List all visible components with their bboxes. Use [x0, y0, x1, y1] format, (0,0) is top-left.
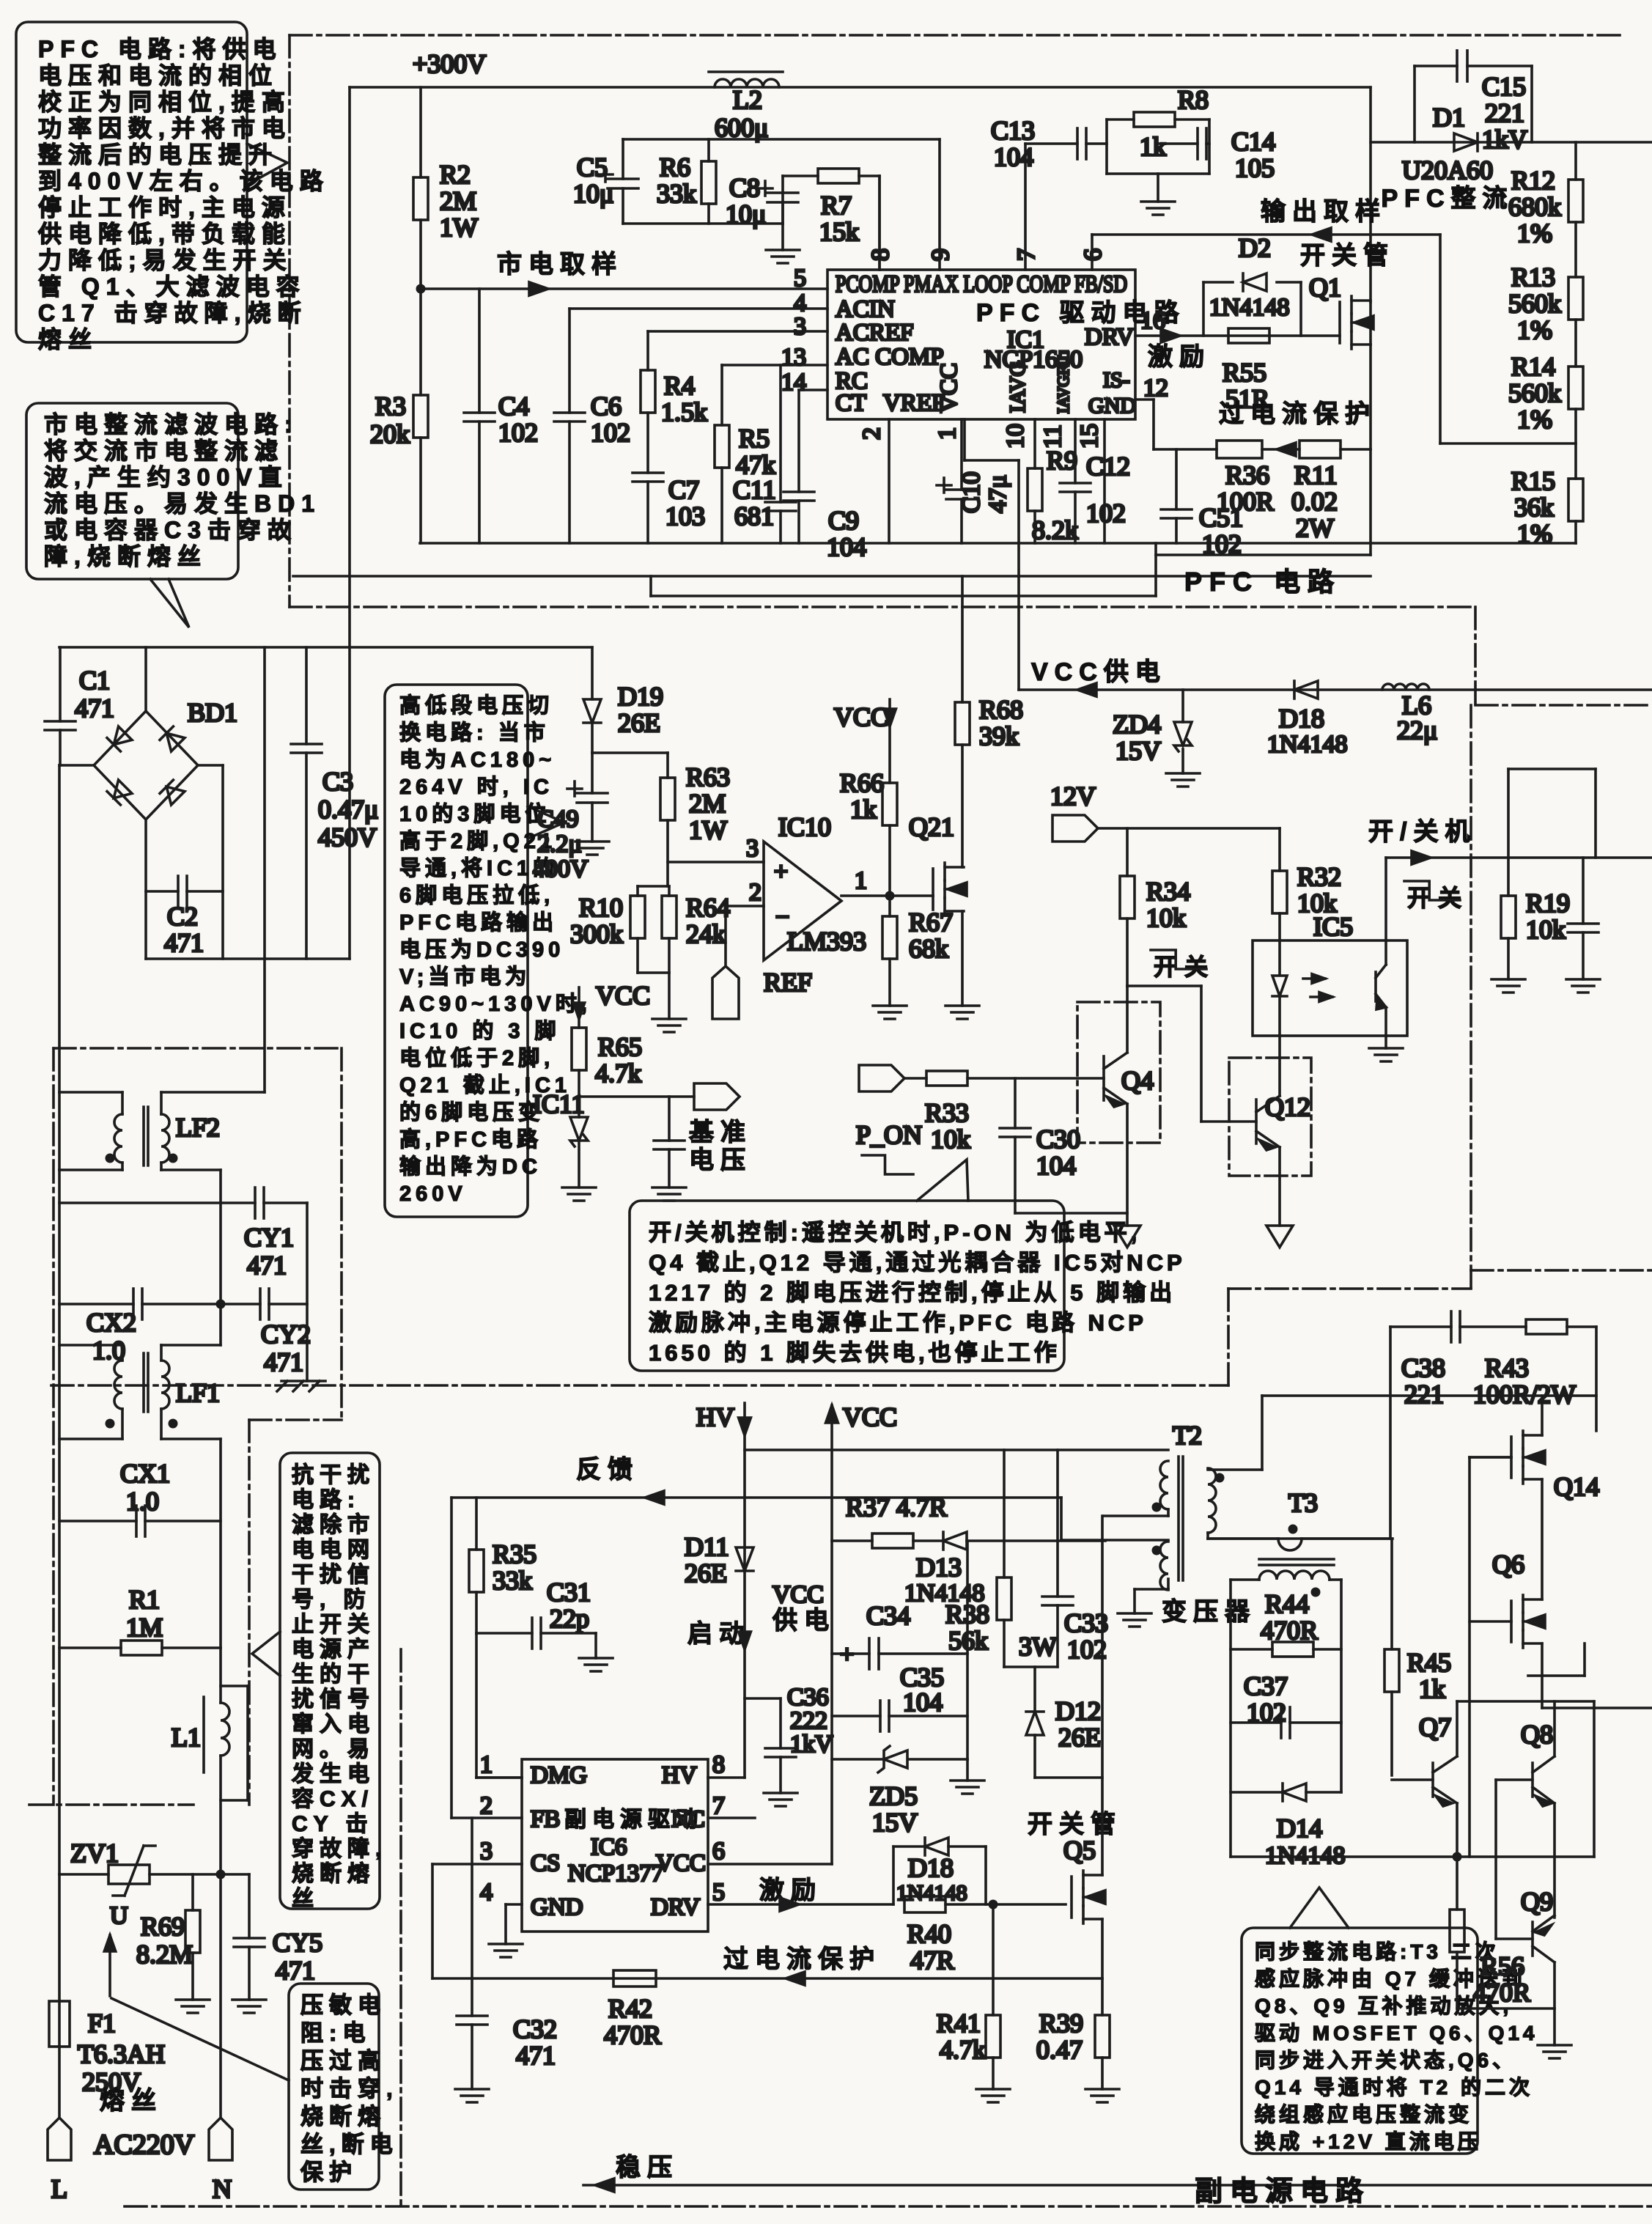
svg-text:1N4148: 1N4148 [1209, 294, 1290, 321]
svg-text:窜入电: 窜入电 [292, 1712, 375, 1737]
svg-text:Q1: Q1 [1309, 273, 1341, 302]
svg-text:D14: D14 [1277, 1814, 1322, 1843]
svg-text:1kV: 1kV [1482, 125, 1527, 154]
svg-text:10μ: 10μ [573, 179, 613, 208]
svg-text:R55: R55 [1223, 358, 1266, 387]
resistor R55 [1228, 328, 1269, 343]
svg-text:R41: R41 [937, 2008, 981, 2038]
svg-text:R12: R12 [1511, 166, 1555, 195]
svg-text:R43: R43 [1485, 1353, 1529, 1382]
wire Q9 base [1496, 1937, 1533, 1940]
svg-text:V;当市电为: V;当市电为 [399, 964, 531, 989]
wire PFC left vertical [348, 87, 351, 647]
svg-text:网。易: 网。易 [292, 1737, 375, 1761]
diode D1 line [1371, 141, 1652, 144]
wire PFC ground bus [420, 542, 1576, 545]
ground Q12 emitter [1266, 1226, 1293, 1248]
svg-text:26E: 26E [618, 708, 660, 737]
svg-text:10k: 10k [931, 1124, 970, 1154]
wire Q8 emitter to Q9 collector [1553, 1803, 1556, 1918]
svg-text:R4: R4 [664, 371, 695, 400]
svg-text:R34: R34 [1146, 877, 1190, 906]
ground under ZD4 [1181, 749, 1184, 773]
svg-text:12: 12 [1143, 375, 1168, 402]
wire pin7 vertical [1024, 144, 1027, 270]
svg-text:+300V: +300V [413, 49, 486, 78]
svg-text:0.47μ: 0.47μ [318, 795, 378, 824]
svg-text:丝: 丝 [292, 1887, 320, 1911]
svg-text:R14: R14 [1511, 352, 1555, 381]
svg-text:471: 471 [247, 1251, 287, 1280]
diode D18 vcc [1294, 681, 1318, 699]
svg-text:C37: C37 [1244, 1671, 1288, 1701]
capacitor C34 electrolytic [832, 1652, 869, 1655]
junction R40/R41 [989, 1900, 998, 1910]
ground under Q21 [945, 1004, 979, 1007]
T3 primary bump [1208, 1537, 1278, 1540]
wire Q6/Q14 gates [1470, 1456, 1511, 1459]
svg-text:R64: R64 [686, 893, 730, 922]
svg-text:36k: 36k [1514, 493, 1554, 522]
svg-text:HV: HV [696, 1402, 734, 1432]
svg-text:R40: R40 [907, 1919, 951, 1948]
capacitor C36 [745, 1697, 781, 1700]
svg-text:BD1: BD1 [188, 698, 237, 727]
svg-text:C38: C38 [1401, 1353, 1445, 1382]
zener ZD4 [1181, 690, 1184, 722]
capacitor C18 right [1582, 858, 1585, 924]
wire pin9 vertical [938, 139, 941, 270]
section boundary dash-dot mid/bottom [51, 705, 1652, 2206]
svg-text:R65: R65 [598, 1032, 642, 1061]
svg-text:ACREF: ACREF [836, 320, 913, 346]
resistor R67 [888, 896, 891, 916]
transistor Q4 [1102, 1056, 1105, 1100]
svg-text:104: 104 [1036, 1151, 1076, 1180]
svg-text:VCC: VCC [656, 1850, 706, 1877]
svg-text:102: 102 [591, 418, 630, 447]
svg-text:稳压: 稳压 [616, 2154, 679, 2181]
svg-text:5: 5 [712, 1879, 725, 1906]
LF2 phase dots [106, 1154, 115, 1163]
wire Q1 source return [1369, 449, 1372, 555]
svg-text:D18: D18 [908, 1853, 954, 1882]
svg-text:高于2脚,Q21: 高于2脚,Q21 [399, 829, 556, 853]
svg-text:1%: 1% [1517, 405, 1552, 434]
svg-text:2.2μ: 2.2μ [537, 831, 582, 858]
capacitor REF [668, 1097, 671, 1141]
diode D13 [943, 1532, 967, 1550]
svg-text:13: 13 [781, 344, 806, 371]
svg-text:NCP1377: NCP1377 [568, 1860, 663, 1887]
svg-text:0.02: 0.02 [1291, 487, 1338, 516]
wire CT pin14 [799, 389, 827, 391]
svg-text:副电源电路: 副电源电路 [1195, 2176, 1371, 2207]
capacitor C2 [146, 890, 178, 893]
svg-text:R42: R42 [608, 1994, 652, 2023]
svg-text:输出降为DC: 输出降为DC [399, 1154, 542, 1179]
svg-text:R9: R9 [1047, 446, 1077, 475]
wire pin15 down [1103, 419, 1106, 543]
svg-text:VCC: VCC [834, 702, 888, 732]
fuse F1 [58, 1874, 61, 2001]
svg-text:471: 471 [75, 693, 114, 723]
svg-text:R56: R56 [1480, 1951, 1524, 1981]
svg-text:干扰信: 干扰信 [292, 1563, 375, 1587]
svg-text:26E: 26E [685, 1558, 727, 1588]
wire VCC pin1 down [963, 419, 966, 460]
svg-text:C30: C30 [1036, 1124, 1080, 1154]
svg-text:IS-: IS- [1103, 368, 1130, 392]
svg-text:R13: R13 [1511, 262, 1555, 292]
svg-text:T6.3AH: T6.3AH [78, 2039, 165, 2069]
varistor arrow [104, 1935, 115, 1951]
transistor Q12 [1255, 1100, 1258, 1144]
wire +300V feed down [348, 647, 351, 959]
svg-text:停止工作时,主电源: 停止工作时,主电源 [38, 194, 292, 221]
svg-text:熔丝: 熔丝 [100, 2087, 163, 2115]
callout box high/low voltage switch description [385, 685, 528, 1217]
ground under ZD5 net [966, 1759, 969, 1781]
svg-text:1N4148: 1N4148 [896, 1881, 967, 1905]
svg-text:IC10 的 3 脚: IC10 的 3 脚 [399, 1018, 561, 1043]
svg-text:校正为同相位,提高: 校正为同相位,提高 [38, 89, 292, 115]
svg-text:CX1: CX1 [120, 1459, 170, 1488]
resistor R8 [1107, 118, 1134, 121]
bridge rectifier BD1 [94, 711, 198, 820]
varistor ZV1 [59, 1873, 108, 1876]
capacitor C10 electrolytic [960, 419, 963, 490]
svg-text:D2: D2 [1239, 233, 1271, 262]
mosfet Q21 [932, 869, 934, 910]
ground under R67 [873, 1004, 907, 1007]
svg-text:R63: R63 [686, 762, 730, 792]
svg-text:AC220V: AC220V [94, 2129, 195, 2160]
svg-text:CY5: CY5 [273, 1928, 322, 1957]
connector REF right [694, 1083, 740, 1110]
svg-text:D19: D19 [618, 682, 663, 711]
svg-text:穿故障,: 穿故障, [292, 1836, 387, 1861]
wire pin6 FB/SD to output sampling [1091, 235, 1094, 270]
svg-text:471: 471 [164, 928, 204, 957]
svg-text:或电容器C3击穿故: 或电容器C3击穿故 [44, 517, 298, 543]
resistor R69 [191, 1874, 194, 1910]
wire R34 to Q4 collector [1127, 984, 1201, 987]
callout box varistor description [289, 1984, 379, 2190]
svg-text:压敏电: 压敏电 [300, 1992, 386, 2018]
svg-text:管 Q1、大滤波电容: 管 Q1、大滤波电容 [38, 273, 306, 300]
svg-text:过电流保护: 过电流保护 [1219, 400, 1376, 428]
svg-text:C5: C5 [577, 152, 608, 182]
svg-text:221: 221 [1404, 1380, 1444, 1409]
svg-text:470R: 470R [1473, 1978, 1530, 2007]
svg-text:R19: R19 [1526, 888, 1570, 918]
svg-text:LF1: LF1 [176, 1378, 220, 1407]
svg-text:1.5k: 1.5k [661, 397, 707, 427]
wire LF2 top left [121, 1092, 124, 1114]
svg-text:熔丝: 熔丝 [38, 326, 98, 353]
ground under CY5 [232, 1998, 266, 2001]
svg-text:VCC: VCC [936, 363, 962, 413]
svg-text:R69: R69 [141, 1912, 185, 1941]
svg-text:P_ON: P_ON [856, 1120, 922, 1149]
svg-text:IAVG: IAVG [1006, 361, 1030, 413]
ground Q4 emitter [1114, 1226, 1140, 1248]
wire Q7 collector [1456, 1701, 1459, 1756]
svg-text:6脚电压拉低,: 6脚电压拉低, [399, 883, 554, 907]
svg-text:R45: R45 [1407, 1648, 1451, 1677]
wire Q8 collector [1553, 1701, 1556, 1756]
svg-text:2: 2 [480, 1792, 493, 1819]
svg-text:C8: C8 [729, 173, 760, 202]
svg-text:F1: F1 [88, 2008, 116, 2038]
section boundary dash-dot PFC region [290, 35, 1652, 705]
wire C5 block top [623, 138, 940, 141]
resistor R12 divider chain [1574, 142, 1577, 180]
svg-text:开: 开 [1407, 885, 1437, 911]
diode D12 [1033, 1667, 1036, 1712]
svg-text:C17 击穿故障,烧断: C17 击穿故障,烧断 [38, 300, 308, 326]
svg-text:C2: C2 [167, 902, 198, 931]
wire FB divider vertical [1439, 235, 1442, 443]
resistor R64 [668, 886, 671, 896]
capacitor C13 [1025, 142, 1077, 145]
svg-text:R11: R11 [1294, 460, 1338, 490]
diode D14 [1231, 1791, 1283, 1794]
svg-text:102: 102 [1086, 498, 1126, 528]
svg-text:1: 1 [855, 867, 867, 894]
svg-text:开关管: 开关管 [1300, 242, 1395, 270]
wire LF1 bottom [121, 1409, 124, 1439]
svg-text:C10: C10 [958, 471, 985, 513]
wire BD1 plus rail [59, 646, 592, 649]
svg-text:换电路: 当市: 换电路: 当市 [399, 720, 550, 745]
wire L bus upper [58, 1092, 61, 1170]
svg-text:容CX/: 容CX/ [292, 1787, 374, 1811]
svg-text:10k: 10k [1526, 915, 1566, 944]
svg-text:力降低;易发生开关: 力降低;易发生开关 [38, 247, 293, 273]
svg-text:电压: 电压 [689, 1146, 752, 1174]
svg-text:4.7k: 4.7k [940, 2035, 986, 2064]
capacitor C49 electrolytic [591, 753, 594, 793]
svg-text:102: 102 [1067, 1635, 1107, 1664]
ground under R41 [976, 2088, 1010, 2091]
svg-text:Q12: Q12 [1265, 1092, 1310, 1122]
svg-text:发生电: 发生电 [291, 1762, 375, 1786]
svg-text:L: L [51, 2174, 67, 2203]
svg-text:丝,断电: 丝,断电 [300, 2132, 399, 2157]
svg-text:电路:: 电路: [292, 1488, 361, 1512]
wire R19 top right [1594, 769, 1597, 858]
svg-text:CX2: CX2 [86, 1308, 136, 1337]
wire LF1 top [121, 1345, 124, 1360]
switch waveform P_ON [862, 1155, 913, 1174]
ground under C36 [764, 1792, 797, 1794]
svg-text:R6: R6 [660, 152, 690, 182]
wire VCC bottom vertical [830, 1405, 833, 1864]
svg-text:输出取样: 输出取样 [1261, 198, 1387, 226]
wire HV down [743, 1403, 746, 1778]
resistor R42 [613, 1970, 656, 1986]
svg-text:1k: 1k [1419, 1674, 1445, 1704]
svg-text:600μ: 600μ [715, 113, 768, 142]
svg-text:22μ: 22μ [1397, 715, 1437, 745]
capacitor C15 [1413, 66, 1416, 142]
svg-text:FB: FB [531, 1806, 560, 1833]
zener ZD5 [832, 1758, 882, 1761]
wire sync bottom rail [1457, 2007, 1555, 2010]
resistor R32 [1278, 828, 1281, 871]
resistor R45 [1390, 1539, 1393, 1649]
wire N bus lower [219, 1439, 222, 1648]
svg-text:扰信号: 扰信号 [292, 1687, 375, 1712]
capacitor C6 [568, 309, 571, 413]
svg-text:3: 3 [746, 835, 759, 862]
svg-text:PFC电路输出: PFC电路输出 [399, 910, 558, 935]
svg-text:R2: R2 [440, 160, 471, 189]
svg-text:+: + [774, 858, 788, 885]
ground under R69 [176, 1998, 210, 2001]
capacitor C30 [1014, 1078, 1017, 1128]
diode D11 [736, 1547, 753, 1571]
inductor L1 [219, 1648, 222, 1703]
wire Q7 emitter to drive node [1456, 1803, 1459, 1857]
wire BD1 top vertex [144, 647, 147, 711]
callout box PFC description [16, 22, 247, 342]
svg-text:C14: C14 [1231, 127, 1275, 156]
capacitor C9 [797, 390, 800, 492]
svg-text:电压和电流的相位: 电压和电流的相位 [38, 62, 279, 89]
svg-text:高,PFC电路: 高,PFC电路 [399, 1127, 542, 1152]
svg-text:450V: 450V [318, 822, 377, 852]
wire Q14-Q6 [1541, 1396, 1544, 1435]
wire output sampling [1092, 233, 1440, 236]
resistor R7 [781, 176, 784, 193]
wire pin2 VREF down [888, 419, 890, 543]
svg-text:1: 1 [480, 1751, 493, 1778]
wire Q14 drain net [1595, 1327, 1598, 1431]
capacitor C7 [633, 471, 663, 474]
svg-text:PFC 电路: PFC 电路 [1184, 567, 1341, 597]
svg-text:470R: 470R [1261, 1616, 1318, 1645]
svg-text:10: 10 [1002, 424, 1029, 449]
optocoupler phototransistor [1374, 972, 1377, 1001]
wire long return line [293, 575, 1371, 578]
svg-text:同步进入开关状态,Q6、: 同步进入开关状态,Q6、 [1255, 2049, 1516, 2072]
svg-text:市电整流滤波电路:: 市电整流滤波电路: [44, 411, 299, 438]
IC6 box NCP1377 [522, 1759, 708, 1932]
wire +300V top rail [350, 86, 1371, 89]
wire sub top rail [745, 1448, 1168, 1451]
svg-text:R5: R5 [739, 424, 770, 453]
svg-text:电电网: 电电网 [292, 1538, 375, 1562]
svg-text:激励脉冲,主电源停止工作,PFC 电路 NCP: 激励脉冲,主电源停止工作,PFC 电路 NCP [649, 1310, 1147, 1336]
svg-text:驱动 MOSFET Q6、Q14: 驱动 MOSFET Q6、Q14 [1255, 2022, 1538, 2044]
wire IS return [651, 594, 1156, 597]
wire pin8 vertical [878, 176, 881, 270]
wire R10/R64 bottom [638, 971, 669, 974]
connector P_ON [859, 1065, 904, 1091]
wire R14/R15 junction to FB [1574, 409, 1577, 479]
svg-text:整流后的电压提升: 整流后的电压提升 [38, 141, 279, 168]
svg-text:1: 1 [934, 427, 961, 440]
wire R10/R64 top [638, 885, 669, 888]
svg-text:R68: R68 [979, 695, 1023, 724]
svg-text:DRV: DRV [1085, 324, 1134, 350]
svg-text:1%: 1% [1517, 315, 1552, 345]
resistor R2 [419, 87, 422, 177]
svg-text:Q14 导通时将 T2 的二次: Q14 导通时将 T2 的二次 [1255, 2075, 1533, 2099]
callout box mains rectifier description [26, 403, 238, 579]
svg-text:15V: 15V [1116, 736, 1161, 765]
svg-text:C1: C1 [79, 666, 110, 695]
svg-text:L1: L1 [172, 1723, 201, 1752]
svg-text:26E: 26E [1058, 1723, 1101, 1752]
ground under C32 [455, 2088, 489, 2091]
svg-text:Q5: Q5 [1063, 1835, 1096, 1865]
svg-text:R32: R32 [1297, 862, 1341, 891]
svg-text:R15: R15 [1511, 466, 1555, 496]
svg-text:将交流市电整流滤: 将交流市电整流滤 [44, 438, 284, 464]
svg-text:264V 时, IC: 264V 时, IC [399, 775, 553, 799]
svg-text:R39: R39 [1039, 2008, 1083, 2038]
svg-text:开关管: 开关管 [1028, 1811, 1122, 1838]
svg-text:障,烧断熔丝: 障,烧断熔丝 [44, 543, 207, 570]
wire T2 secondary bottom [1206, 1533, 1209, 1539]
svg-text:Q21: Q21 [909, 812, 954, 842]
svg-text:560k: 560k [1508, 289, 1561, 318]
svg-text:IC11: IC11 [533, 1089, 585, 1119]
svg-text:供电降低,带负载能: 供电降低,带负载能 [38, 221, 292, 247]
T2 secondary winding [1208, 1468, 1216, 1533]
LF1 phase dots [106, 1419, 115, 1429]
resistor R36 [1154, 448, 1217, 451]
T2 aux winding [1160, 1542, 1168, 1590]
resistor R13 [1574, 222, 1577, 277]
wire Q5 source down [1101, 1919, 1104, 1978]
svg-text:反馈: 反馈 [576, 1456, 639, 1484]
svg-text:ZD4: ZD4 [1113, 710, 1161, 739]
svg-text:15: 15 [1076, 424, 1103, 449]
svg-text:6: 6 [712, 1838, 725, 1865]
svg-text:C11: C11 [733, 475, 776, 504]
svg-text:开: 开 [1154, 954, 1184, 980]
wire feedback [451, 1496, 1061, 1499]
svg-text:680k: 680k [1508, 192, 1561, 221]
svg-text:号, 防: 号, 防 [292, 1588, 372, 1612]
diode D19 [583, 699, 601, 723]
svg-text:47R: 47R [910, 1945, 954, 1975]
junction drive node [1453, 1852, 1462, 1862]
svg-text:300k: 300k [570, 919, 623, 949]
wire IC10 pin3 [668, 861, 764, 864]
wire gate drive to Q6/Q14 [1470, 1456, 1511, 1459]
svg-text:Q8: Q8 [1521, 1720, 1553, 1749]
svg-text:39k: 39k [979, 721, 1019, 751]
inductor L6 [1382, 684, 1429, 690]
wire L bus [58, 1170, 61, 1874]
wire T3 sec right [1330, 1578, 1341, 1581]
wire 300V to D19 [591, 647, 594, 699]
svg-text:Q7: Q7 [1419, 1712, 1451, 1742]
capacitor C11 [779, 365, 782, 502]
ground under C8 [766, 248, 800, 251]
svg-text:R44: R44 [1265, 1589, 1309, 1619]
ground under C31 [579, 1657, 613, 1660]
svg-text:560k: 560k [1508, 378, 1561, 408]
svg-text:激励: 激励 [1148, 343, 1211, 371]
svg-text:104: 104 [827, 532, 866, 561]
